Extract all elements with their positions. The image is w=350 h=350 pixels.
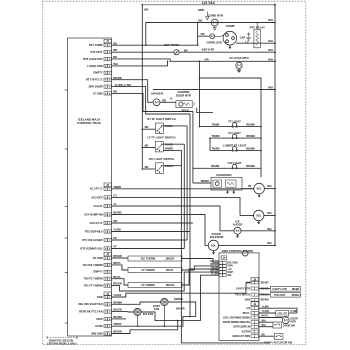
svg-text:TH GND: TH GND (93, 256, 103, 260)
svg-text:BK: BK (262, 333, 266, 336)
connector J7 label (221, 256, 227, 260)
wire trunk vertical T5 (192, 114, 194, 183)
connector J8 pin 1 (246, 281, 269, 284)
note DENOTES USED ON CERTAIN MODELS ONLY (47, 336, 77, 346)
connector J8 pin 4 (245, 298, 269, 301)
svg-text:RT2 DISP MLV: RT2 DISP MLV (85, 229, 103, 233)
svg-text:WH: WH (267, 241, 271, 245)
svg-text:YL: YL (113, 202, 117, 206)
svg-text:OR: OR (205, 57, 209, 61)
svg-text:WH: WH (268, 18, 273, 22)
icemaker grounds (226, 190, 235, 194)
svg-text:AC EVAP MTR: AC EVAP MTR (229, 56, 248, 60)
svg-text:RT3 ICEMKR SOL: RT3 ICEMKR SOL (80, 246, 103, 250)
wire switch1 output to trunk (163, 125, 187, 127)
defrost terminator DEF TERM (164, 43, 188, 55)
svg-text:RD: RD (145, 125, 149, 129)
wire evap fan return staircase to J4 pin5 (111, 302, 195, 326)
wire lamp row2 (210, 137, 262, 139)
wire switch2 outputs to trunk (163, 144, 184, 151)
lamp FZ2 LIGHT (211, 161, 255, 168)
solenoid ground (212, 251, 215, 255)
svg-text:BK/OR: BK/OR (166, 257, 175, 261)
wire rail R5 damper return (153, 86, 275, 90)
svg-text:LF GND: LF GND (93, 91, 103, 95)
svg-text:BK/GN: BK/GN (166, 283, 175, 287)
wire J2 pin1 TN/RD to ice light bulb (111, 188, 254, 190)
svg-text:YL/OR: YL/OR (262, 310, 270, 313)
svg-text:GND: GND (245, 299, 251, 302)
solenoid auger SOL (208, 240, 218, 250)
svg-text:TN/RD: TN/RD (211, 146, 219, 150)
svg-text:DEF HTR: DEF HTR (202, 47, 214, 51)
svg-text:VT: VT (113, 245, 117, 249)
svg-text:SOL: SOL (211, 244, 217, 247)
svg-text:BK/YL: BK/YL (166, 268, 174, 272)
svg-text:DRV DAMP: DRV DAMP (89, 85, 103, 89)
auger solenoid label (210, 232, 224, 239)
wire labels at J1 pins (113, 41, 131, 93)
svg-text:RD/YL: RD/YL (182, 109, 191, 113)
wire J4 pin4 stub (111, 315, 126, 319)
damper door motor DAMPER DOOR MTR (170, 90, 213, 112)
svg-text:BR/WH: BR/WH (174, 297, 183, 301)
connector J9 pin 7 (232, 335, 258, 338)
svg-text:RD: RD (145, 165, 149, 169)
compressor ground (228, 45, 231, 49)
connector J8 pin 3 (235, 293, 269, 296)
svg-text:YL/BK: YL/BK (262, 305, 269, 308)
wire J1 pin8 RD to trunk (111, 93, 192, 114)
lamp FF LIGHT (211, 131, 255, 138)
cavity heater CAVITY HTR box (259, 286, 301, 291)
svg-text:TN/OR: TN/OR (113, 322, 121, 326)
svg-text:YL/BK: YL/BK (113, 228, 121, 232)
connector J3 label (104, 252, 111, 256)
svg-text:TN: TN (248, 184, 252, 188)
wire lamp row1 FF LIGHT (199, 126, 262, 128)
svg-text:+12: +12 (246, 307, 251, 310)
svg-text:RD/WH: RD/WH (292, 295, 300, 297)
wire J2 pin6 to trunk T4 (111, 231, 190, 233)
wire rail R1 top BK feeder (146, 18, 275, 45)
schematic border frame (43, 1, 306, 344)
svg-text:BK/RD: BK/RD (113, 211, 121, 215)
connector J8 label (251, 277, 259, 281)
svg-text:WH: WH (262, 319, 266, 322)
svg-text:ICE FAN: ICE FAN (143, 312, 153, 316)
connector J4 pin 1 GND (97, 295, 112, 299)
connector J7 pin 5 SIG (219, 274, 232, 277)
svg-text:WH: WH (268, 86, 273, 90)
svg-text:YL: YL (170, 97, 174, 101)
svg-text:BR/YL: BR/YL (113, 261, 121, 265)
svg-text:AC1 FF LT: AC1 FF LT (90, 187, 103, 191)
svg-text:AC3 Z1: AC3 Z1 (94, 204, 104, 208)
svg-text:L1(NO) GND: L1(NO) GND (87, 64, 102, 68)
connector J9 pin 6 (242, 330, 259, 333)
svg-text:CERTAIN MODELS ONLY: CERTAIN MODELS ONLY (47, 343, 77, 346)
connector J7 pin 3 +13 (219, 268, 232, 271)
svg-text:RD/BK: RD/BK (211, 164, 219, 168)
wire switch3 output to trunk (163, 165, 181, 167)
wire trunk vertical T1 (181, 150, 270, 343)
icemaker ICEMAKER box (201, 173, 242, 190)
connector J4 pin 3 REFR BK FTC FAN (79, 310, 111, 314)
svg-text:MTR: MTR (291, 321, 296, 324)
svg-text:RD/WH: RD/WH (261, 299, 269, 302)
svg-text:CAVITY ACTUATOR SW: CAVITY ACTUATOR SW (264, 342, 293, 345)
wire lamp row3 LOWER FF LIGHT (210, 150, 262, 152)
svg-text:AC2 DEF: AC2 DEF (91, 195, 103, 199)
LED light box LED LTD (259, 310, 298, 316)
svg-text:AUGER: AUGER (233, 223, 243, 227)
svg-text:LED LTD: LED LTD (277, 313, 287, 316)
svg-text:ICE THERM: ICE THERM (141, 257, 156, 261)
svg-text:GND: GND (97, 295, 103, 299)
svg-text:TN/BK: TN/BK (211, 122, 219, 126)
svg-text:WH: WH (268, 48, 273, 52)
svg-text:WH: WH (262, 324, 266, 327)
wire lamp row4 FZ2 LIGHT (193, 167, 261, 169)
control board edge ticks (65, 90, 68, 323)
thermistor ICE THERM (111, 256, 219, 263)
connector J1 pin 3 RT6 CHAR HTR (83, 57, 111, 61)
svg-text:BIN GND: BIN GND (92, 331, 103, 335)
svg-text:TX12 HTR: TX12 HTR (274, 294, 286, 297)
wire lamp left vertical (209, 137, 211, 150)
svg-text:AC4 DAMP HM: AC4 DAMP HM (84, 212, 103, 216)
svg-text:DOOR MTR: DOOR MTR (176, 93, 191, 97)
connector J9 label (251, 302, 259, 306)
thermistor FZ THERM (111, 265, 219, 273)
svg-text:TVLV NEUTR: TVLV NEUTR (235, 294, 250, 297)
wire RD drop to overload (197, 22, 210, 37)
svg-text:SOLENOID: SOLENOID (210, 235, 224, 239)
connector J2 label (104, 183, 111, 187)
connector J1 pin 7 DRV DAMP (89, 85, 112, 89)
svg-text:RD/BK: RD/BK (292, 289, 300, 291)
svg-text:FF THERM: FF THERM (141, 283, 155, 287)
connector J2 pin 3 AC3 Z1 (94, 202, 117, 208)
cavity actuator switch CAVITY ACTUATOR SW (259, 333, 293, 344)
svg-text:WH: WH (113, 62, 118, 66)
svg-text:BK/GN: BK/GN (113, 308, 122, 312)
svg-text:BR: BR (113, 48, 117, 52)
svg-text:TN/RD: TN/RD (113, 185, 121, 189)
svg-text:OR: OR (113, 219, 117, 223)
svg-text:BK: BK (199, 18, 203, 22)
svg-text:TN/RD: TN/RD (211, 134, 219, 138)
connector J1 pin 6 RT7 FF/FZ LT (86, 78, 111, 82)
connector J1 pin 1 RT1 COMP (89, 43, 111, 47)
ice auger motor ICE AUGER (233, 219, 275, 234)
wire J4 pin2 to evap fan (111, 300, 160, 304)
svg-text:RT1 COMP: RT1 COMP (89, 43, 103, 47)
connector J1 label (104, 39, 111, 43)
wire WH neutral vertical bus V2 (274, 5, 276, 247)
svg-text:GY: GY (113, 194, 117, 198)
light switch LT FF LIGHT SWITCH (142, 135, 176, 152)
svg-text:WH: WH (267, 184, 271, 188)
wire J2 pin4 to auger solenoid rail (111, 215, 208, 246)
svg-text:COND MTR: COND MTR (208, 13, 223, 17)
svg-text:115 VAC: 115 VAC (202, 1, 216, 5)
svg-text:WH: WH (268, 57, 273, 61)
cavity heater TX12 HTR box (259, 292, 301, 297)
door switch DOOR SW (259, 319, 296, 328)
wire J2 pin7 to trunk T3 (111, 239, 187, 241)
svg-text:BK/YL: BK/YL (113, 275, 121, 279)
svg-text:RD/OR: RD/OR (261, 281, 269, 284)
defrost heater DEF HTR label (202, 47, 214, 51)
svg-text:DISP: DISP (96, 317, 102, 321)
svg-text:RT6 CHAR HTR: RT6 CHAR HTR (83, 57, 102, 61)
lamp FF LIGHT (211, 119, 255, 126)
svg-text:FAN: FAN (154, 307, 159, 311)
connector J2 pin 1 AC1 FF LT (90, 185, 122, 191)
compressor COMP (215, 24, 237, 45)
connector J2 pin 6 RT2 DISP MLV (85, 228, 121, 234)
svg-text:PK: PK (113, 236, 117, 240)
connector J2 pin 5 AC5 FZ LT (90, 219, 118, 225)
svg-text:+12: +12 (246, 281, 251, 284)
connector J3 pin 5 TH1 FF THERM (84, 282, 122, 288)
connector J3 pin 2 TH4 ICE THERM (82, 261, 121, 267)
svg-text:RT FF LIGHT SWITCH: RT FF LIGHT SWITCH (147, 117, 175, 121)
wire J2 pin3 YL to auger motor (111, 206, 233, 231)
svg-text:FZ THERM: FZ THERM (141, 268, 155, 272)
connector J8 pin 2 (236, 287, 269, 290)
svg-text:ACDR: ACDR (95, 324, 103, 328)
svg-text:SIG: SIG (227, 274, 231, 277)
connector J7 pin 4 DISP (219, 271, 233, 274)
AC evaporator motor AC EVAP MTR (229, 56, 248, 69)
wire J2 pin2 GY to dispenser light bulb (111, 197, 240, 215)
wire J9 pin1 YL/BK (259, 305, 298, 313)
svg-text:CONTROL PACK: CONTROL PACK (77, 121, 101, 125)
ice auger motor ground (236, 234, 239, 238)
svg-text:RD/GN: RD/GN (113, 282, 122, 286)
svg-text:CAP: CAP (240, 36, 246, 40)
wire loop rail B1 lamp return top (199, 60, 261, 177)
svg-text:RD: RD (162, 98, 166, 102)
wire rail R3 defrost heater row (111, 48, 275, 52)
connector J9 pin 5 (233, 325, 258, 328)
connector J4 pin 2 DELI BK EVAP FAN (78, 302, 111, 306)
wire WH jog from connector J1 pin4 to R4 (111, 61, 168, 66)
svg-text:ACTDR: ACTDR (242, 330, 251, 333)
wire trunk vertical T3 (186, 126, 188, 240)
svg-text:AC5 FZ LT: AC5 FZ LT (90, 221, 103, 225)
connector J3 pin 3 EMPTY (94, 270, 112, 274)
shaker motor SHAKER (151, 92, 171, 106)
evaporator fan EVAP FAN (153, 297, 183, 327)
svg-text:DOOR SW: DOOR SW (283, 324, 295, 327)
wire J2 pin8 to trunk T2 (111, 248, 184, 250)
wire J1 pin1 BK to R1 riser (111, 36, 198, 46)
svg-text:TH1 FF THERM: TH1 FF THERM (84, 284, 104, 288)
svg-text:ICEMAKER: ICEMAKER (216, 173, 231, 177)
svg-text:TH4 ICE THERM: TH4 ICE THERM (82, 263, 103, 267)
svg-text:LED LIGHTNING RD/BK: LED LIGHTNING RD/BK (223, 316, 250, 319)
connector J9 pin 2 (243, 312, 259, 315)
wire trunk vertical T4 (189, 114, 191, 317)
svg-text:BK/OR: BK/OR (176, 306, 185, 310)
connector J4 pin 4 DISP (96, 317, 111, 321)
wire labels thermistor returns (210, 260, 218, 275)
svg-text:SOL: SOL (256, 215, 262, 218)
connector J2 pin 4 AC4 DAMP HM (84, 211, 122, 217)
wire J4 pin3 to ice fan (111, 308, 133, 312)
connector J1 pin 4 L1(NO) GND (87, 64, 111, 68)
svg-text:BK: BK (145, 143, 149, 147)
connector J2 pin 8 RT3 ICEMKR SOL (80, 245, 117, 251)
solenoid icemaker water valve (242, 183, 275, 194)
svg-text:RT7 FF/FZ LT: RT7 FF/FZ LT (86, 78, 103, 82)
svg-text:CAVITY HTR: CAVITY HTR (272, 288, 286, 291)
svg-text:DELI BK EVAP FAN: DELI BK EVAP FAN (78, 302, 102, 306)
connector J9 pin 3 (223, 316, 259, 319)
wire J3 pin4 return (111, 272, 219, 291)
wire J2 pin5 to trunk T5 (111, 222, 192, 224)
label 115 VAC supply dimension line (142, 1, 276, 6)
connector J4 pin 6 BIN GND (92, 331, 112, 335)
connector J3 pin 1 TH GND (93, 254, 122, 260)
svg-text:LT FF LIGHT SWITCH: LT FF LIGHT SWITCH (148, 135, 176, 139)
condenser motor COND MTR (208, 13, 223, 30)
svg-text:GRD: GRD (198, 8, 205, 12)
dispenser valve solenoid ground (257, 221, 260, 225)
connector J2 pin 7 RT4 ICE AUGER (82, 236, 117, 242)
svg-text:BK/WH: BK/WH (113, 315, 122, 319)
run capacitor CAP (240, 33, 251, 42)
wire J7 riser to fan zone (201, 275, 220, 320)
svg-text:BR/OR: BR/OR (113, 254, 122, 258)
wire ice fan return staircase to J4 pin5 (111, 312, 200, 334)
svg-text:FZ1 LIGHT SWITCH: FZ1 LIGHT SWITCH (149, 157, 175, 161)
connector J7 pin 2 GRN (219, 265, 233, 268)
connector J4 pin 5 ACDR (95, 324, 111, 328)
svg-text:WH: WH (268, 39, 273, 43)
wire J1 pin6 RD/BK to shaker (111, 80, 152, 103)
svg-text:WH: WH (267, 211, 271, 215)
PTC relay (250, 22, 265, 48)
solenoid dispenser water valve (240, 210, 275, 220)
wire BK hot vertical bus V1 (141, 4, 149, 169)
svg-text:RT2 STAT: RT2 STAT (90, 50, 103, 54)
connector J4 label (104, 292, 111, 296)
svg-text:RD/WH: RD/WH (246, 164, 255, 168)
connector J3 pin 4 TH2 FZ THERM (84, 275, 122, 281)
main control board ICELAND MA1A CONTROL PACK (68, 38, 112, 336)
light switch FZ1 LIGHT SWITCH (142, 157, 175, 174)
svg-text:REFR BK FTC FAN: REFR BK FTC FAN (79, 310, 103, 314)
ice fan ICE FAN (134, 308, 153, 327)
svg-text:WH: WH (267, 227, 271, 231)
svg-text:COMP: COMP (226, 24, 235, 28)
lamp LOWER FF LIGHT (211, 143, 255, 150)
svg-text:RT4 ICE AUGER: RT4 ICE AUGER (82, 238, 102, 242)
door motor DOOR MTR (259, 315, 298, 324)
svg-text:BR/OR: BR/OR (113, 330, 122, 334)
svg-text:RD: RD (201, 32, 205, 36)
svg-text:YL/BK: YL/BK (290, 310, 297, 313)
svg-text:BR/WH: BR/WH (246, 134, 255, 138)
wire rail R4 evap motor row with OR label (111, 57, 275, 61)
svg-text:TH2 FZ THERM: TH2 FZ THERM (84, 277, 104, 281)
connector J1 pin 8 LF GND (93, 91, 112, 95)
svg-text:SOL: SOL (257, 188, 263, 191)
svg-text:BR/WH: BR/WH (113, 300, 122, 304)
svg-text:EMPTY: EMPTY (94, 270, 103, 274)
connector J9 pin 4 (223, 321, 259, 324)
ground GRD symbol at supply (198, 8, 209, 20)
svg-text:CAVITY HTR: CAVITY HTR (236, 287, 250, 290)
dispenser control board DISP CONTROL BOARD (219, 249, 259, 340)
wire rail R2 compressor run to neutral (236, 39, 275, 43)
wire J1 pin7 to trunk (111, 87, 190, 115)
svg-text:DATA QW/D IN: DATA QW/D IN (233, 326, 250, 329)
svg-text:DOOR WRENCHING BK: DOOR WRENCHING BK (223, 321, 250, 324)
svg-text:OVERLOAD: OVERLOAD (207, 41, 223, 45)
svg-text:YL/GN: YL/GN (211, 273, 219, 276)
AC evap motor ground (237, 69, 241, 72)
svg-text:BK: BK (113, 55, 117, 59)
light switch RT FF LIGHT SWITCH (142, 117, 176, 134)
thermistor FF THERM (111, 269, 219, 288)
wire J4 pin1 YL/GN ground run (111, 282, 251, 297)
svg-text:BK/YL: BK/YL (243, 312, 251, 315)
svg-text:SHAKER: SHAKER (151, 92, 163, 96)
connector J2 pin 2 AC2 DEF (91, 194, 117, 200)
connector J9 pin 1 (246, 307, 259, 310)
icemaker valve solenoid ground (258, 194, 261, 198)
overload protector (207, 34, 223, 45)
svg-text:RD/WH: RD/WH (246, 122, 255, 126)
connector J1 pin 2 RT2 STAT (90, 50, 111, 54)
svg-text:RD/WH: RD/WH (246, 146, 255, 150)
connector J1 pin 5 EMPTY (94, 71, 112, 75)
svg-text:EMPTY: EMPTY (94, 71, 103, 75)
wire trunk to icemaker (193, 182, 211, 184)
svg-text:BK/YL: BK/YL (262, 315, 270, 318)
svg-text:MAIN ACT DRN: MAIN ACT DRN (232, 335, 250, 338)
svg-text:DISP CONTROL BOARD: DISP CONTROL BOARD (222, 249, 254, 253)
connector J7 pin 1 DIG GND (219, 262, 238, 265)
wire trunk vertical T2 (183, 144, 185, 248)
wire solenoid rail to neutral (219, 241, 275, 245)
svg-text:YL/GN: YL/GN (113, 293, 121, 297)
